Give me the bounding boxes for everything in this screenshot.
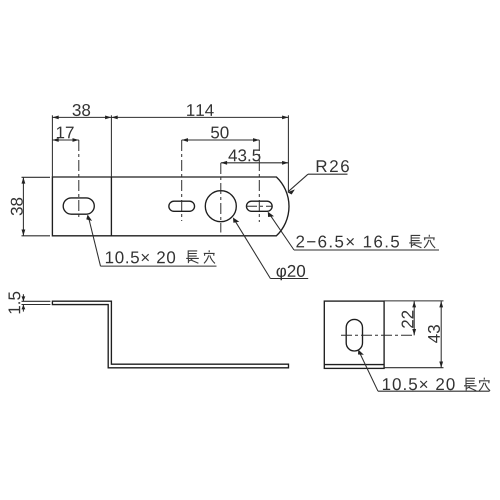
dimension line 38 vertical	[22, 177, 24, 236]
centerline hole	[220, 163, 222, 233]
end view slot centerline	[341, 334, 414, 336]
end view slot 10.5x20 vertical	[346, 319, 362, 351]
slot 6.5x16.5 right	[246, 201, 272, 211]
kanji naga-ana top label	[186, 250, 199, 263]
dimension line 17	[52, 139, 78, 141]
dimension line 50	[182, 139, 260, 141]
plate outline top view with R26 round end	[52, 177, 289, 236]
leader 2-6.5x16.5	[269, 213, 294, 250]
text 1.5	[9, 292, 21, 314]
leader 10.5x20 top	[89, 217, 101, 266]
kanji naga-ana right label	[409, 235, 422, 248]
underline 2-6.5x16.5	[294, 249, 439, 251]
kanji naga-ana end label	[464, 378, 477, 391]
centerline slot right horizontal	[246, 205, 272, 207]
dimension 1.5 arrows	[22, 294, 24, 301]
dimension line 43.5	[221, 162, 289, 164]
text 17	[57, 127, 74, 139]
leader R26	[288, 174, 308, 192]
dimension line 38 and 114	[52, 116, 288, 118]
text 22	[402, 311, 414, 328]
underline 10.5x20 top	[101, 265, 217, 267]
slot 6.5x16.5 middle	[169, 201, 195, 211]
vertical dim 38 left extension top	[22, 176, 51, 178]
extension line right end	[287, 115, 289, 192]
leader 10.5x20 end	[359, 351, 378, 391]
text 43.5	[228, 149, 260, 161]
underline R26	[308, 173, 348, 175]
label 2-6.5x16.5	[296, 236, 399, 248]
centerline slot right vertical	[258, 140, 260, 222]
text 43	[428, 325, 440, 343]
hole dia20	[205, 191, 236, 222]
end view extension top	[384, 300, 443, 302]
extension lines 1.5	[22, 300, 51, 302]
slot 10.5x20 left	[63, 198, 94, 214]
end view extension bottom	[384, 367, 443, 369]
bend line across plate	[110, 177, 112, 236]
label R26	[317, 160, 349, 172]
dimension 43	[440, 301, 442, 368]
text 38	[73, 104, 91, 116]
leader dia20	[234, 219, 270, 278]
text 114	[187, 104, 214, 116]
label dia 20	[277, 265, 306, 280]
end view square	[324, 301, 384, 368]
side view Z profile	[52, 301, 288, 368]
underline dia20	[270, 278, 308, 280]
text 50	[211, 126, 229, 138]
text 38 vertical	[11, 198, 23, 216]
underline 10.5x20 end	[378, 390, 490, 392]
end view flange line	[324, 364, 384, 366]
centerline slot left	[78, 140, 80, 219]
label 10.5x20 top view	[106, 251, 175, 263]
centerline slot middle	[181, 140, 183, 221]
extension line left edge	[51, 115, 53, 177]
dimension 22	[413, 301, 415, 335]
vertical dim 38 left extension bottom	[22, 235, 51, 237]
extension line bend	[110, 115, 112, 177]
label 10.5x20 end view	[383, 378, 455, 390]
